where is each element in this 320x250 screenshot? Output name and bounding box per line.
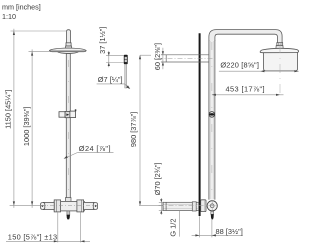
extension line top (pipe top) bbox=[11, 30, 67, 32]
svg-text:mm [inches]: mm [inches] bbox=[2, 2, 41, 11]
supply pipe to wall (side view) bbox=[163, 202, 199, 210]
hand shower holder slider (front view) bbox=[59, 111, 76, 118]
dimension 980 line bbox=[139, 55, 141, 205]
svg-text:Ø7 [¼"]: Ø7 [¼"] bbox=[98, 75, 123, 84]
top pipe with cap (front view) bbox=[67, 30, 71, 44]
dimension 1000 arrows bbox=[31, 52, 33, 56]
dimension 88 arrows bbox=[195, 234, 199, 236]
volume control knob on riser bbox=[209, 112, 215, 118]
svg-text:G 1/2: G 1/2 bbox=[168, 219, 177, 237]
dimension diameter 70 extension lines bbox=[159, 202, 163, 210]
dimension 220 arrows bbox=[260, 70, 264, 72]
shower head centerline bbox=[279, 44, 281, 97]
svg-text:1150 [45¼"]: 1150 [45¼"] bbox=[3, 90, 12, 129]
pipe entry nut at valve bbox=[65, 198, 71, 202]
svg-text:60 [2⅜"]: 60 [2⅜"] bbox=[153, 43, 162, 70]
riser pipe edges (side view) bbox=[209, 40, 215, 200]
elbow centerline bbox=[158, 57, 215, 59]
extension line valve centre (left) bbox=[10, 204, 46, 206]
ball joint bbox=[276, 46, 283, 49]
collar nut above head (front view) bbox=[66, 43, 72, 49]
arm nut bbox=[277, 43, 283, 46]
supply centerline bbox=[159, 205, 219, 207]
svg-text:150 [5⅞"] ±13: 150 [5⅞"] ±13 bbox=[8, 232, 58, 241]
dimension 453 line bbox=[212, 94, 284, 96]
shower arm tube (side view) bbox=[212, 32, 280, 43]
arm nut hatches bbox=[278, 43, 281, 46]
slider top nub bbox=[75, 109, 77, 111]
dimension 1150 arrows bbox=[13, 31, 15, 35]
shower head (side view) body bbox=[264, 53, 298, 71]
svg-text:Ø24 [⅞"]: Ø24 [⅞"] bbox=[79, 144, 111, 153]
dimension 150 line bbox=[6, 240, 90, 242]
label diameter 7 leader bbox=[97, 84, 130, 88]
dimension 37 extension lines bbox=[106, 56, 124, 63]
label diameter 24 arrow bbox=[64, 156, 68, 159]
dimension 980 top extension bbox=[140, 54, 151, 56]
supply pipe inner lines bbox=[163, 204, 198, 208]
svg-text:980 [37⅞"]: 980 [37⅞"] bbox=[129, 112, 138, 148]
label G 1/2 leader bbox=[179, 211, 181, 237]
hand shower inner squares bbox=[125, 57, 127, 59]
hand shower hose bbox=[125, 64, 127, 88]
right handle end dot bbox=[95, 205, 97, 207]
dimension 150 arrows bbox=[54, 240, 58, 242]
svg-text:453 [17⅞"]: 453 [17⅞"] bbox=[226, 85, 266, 94]
escutcheon inner line bbox=[204, 200, 206, 211]
left handle bbox=[41, 202, 55, 209]
dimension 60 arrows bbox=[162, 51, 164, 55]
label diameter 24 leader bbox=[65, 152, 114, 158]
svg-text:37 [1½"]: 37 [1½"] bbox=[98, 27, 107, 54]
dimension diameter 220 line bbox=[219, 70, 299, 72]
dimension 980 bottom extension bbox=[139, 204, 166, 206]
supply flange edge bbox=[165, 202, 167, 210]
head rim line bbox=[50, 50, 86, 52]
dimension 1000 line bbox=[31, 49, 33, 208]
wall line bbox=[199, 33, 201, 216]
svg-text:1000 [39⅜"]: 1000 [39⅜"] bbox=[22, 106, 31, 146]
hand shower profile (detail) bbox=[124, 55, 128, 64]
dimension 1150 line bbox=[13, 29, 15, 208]
valve handle inner circle bbox=[210, 204, 214, 208]
dimension 70 arrows bbox=[160, 199, 162, 202]
label diameter 7 arrow bbox=[126, 85, 130, 89]
riser centerline bbox=[211, 42, 213, 198]
dimension 150 extension lines bbox=[58, 212, 81, 242]
svg-text:Ø70 [2¾"]: Ø70 [2¾"] bbox=[153, 162, 162, 195]
dimension 88 extension lines bbox=[199, 216, 212, 237]
shower head lid (side view) bbox=[260, 48, 299, 52]
dark outlet tip (front) bbox=[67, 215, 71, 220]
valve outlet neck (side) bbox=[211, 211, 214, 214]
wall supply elbow top: edges bbox=[161, 55, 209, 62]
shower head disc (front view) bbox=[49, 48, 86, 54]
right handle bbox=[84, 202, 98, 209]
riser inner highlight lines bbox=[210, 41, 214, 199]
riser pipe fill (side view) bbox=[209, 40, 215, 200]
left escutcheon collar bbox=[54, 200, 60, 212]
supply pipe nut bbox=[192, 202, 196, 211]
svg-text:1:10: 1:10 bbox=[2, 12, 16, 21]
dimension 37 arrows bbox=[108, 52, 110, 56]
knob dark band bbox=[209, 113, 214, 116]
valve outlet dark tip (side) bbox=[211, 214, 214, 219]
supply flange left lip bbox=[162, 202, 164, 211]
shower arm outer edge bbox=[209, 30, 282, 43]
dimension 980 arrows bbox=[139, 55, 141, 59]
svg-text:88 [3½"]: 88 [3½"] bbox=[216, 227, 243, 236]
valve crosshair vertical bbox=[211, 201, 213, 211]
riser pipe (front view) bbox=[66, 54, 70, 200]
mixer valve centerline (front view) bbox=[41, 205, 97, 207]
svg-text:Ø220 [8⅝"]: Ø220 [8⅝"] bbox=[220, 60, 259, 69]
dimension 88 line bbox=[192, 234, 243, 236]
slider clamp dark mark bbox=[66, 114, 69, 116]
dimension 70 line bbox=[160, 198, 162, 215]
valve handle circle (side view) bbox=[207, 201, 217, 211]
mixer valve body tube (front view) bbox=[54, 201, 84, 211]
valve escutcheon plate (side view) bbox=[201, 200, 206, 212]
left handle end dot bbox=[42, 205, 44, 207]
dimension 37 line bbox=[108, 51, 110, 67]
dimension 60 line bbox=[162, 48, 164, 70]
hand shower outlet below valve (front) bbox=[67, 211, 70, 215]
right escutcheon collar bbox=[77, 200, 84, 212]
extension line head underside bbox=[29, 51, 50, 53]
dimension 453 arrows bbox=[212, 94, 216, 96]
shower arm inner edge bbox=[215, 34, 278, 42]
